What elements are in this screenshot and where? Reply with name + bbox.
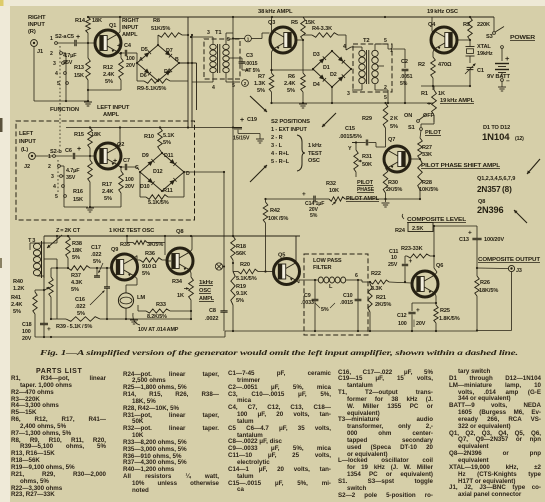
ground pilot (382, 202, 390, 204)
wire Q2 collector up (118, 144, 120, 147)
wire bottom rail (225, 330, 477, 332)
wire T1 bus left (187, 17, 189, 128)
svg-text:5 - R−L: 5 - R−L (271, 159, 290, 165)
svg-text:20V: 20V (126, 63, 136, 69)
svg-text:R29: R29 (362, 116, 372, 122)
svg-text:Y: Y (348, 146, 352, 152)
svg-text:5: 5 (57, 81, 60, 87)
svg-text:5.1K/5%: 5.1K/5% (236, 276, 257, 282)
svg-text:5%: 5% (163, 140, 171, 146)
svg-text:C3: C3 (246, 53, 253, 59)
wire T3 bottom lead (37, 275, 44, 277)
ground battery (498, 86, 506, 88)
svg-text:910 Ω: 910 Ω (142, 264, 157, 270)
svg-text:+: + (113, 158, 117, 165)
svg-text:D5: D5 (141, 47, 148, 53)
svg-text:3: 3 (51, 174, 54, 180)
svg-text:100: 100 (126, 56, 135, 62)
svg-text:D3: D3 (313, 52, 320, 58)
svg-text:AMPL: AMPL (199, 296, 215, 302)
svg-text:C13: C13 (459, 237, 469, 243)
svg-text:S2-b: S2-b (50, 149, 62, 155)
svg-text:Q1: Q1 (109, 23, 116, 29)
svg-text:R5: R5 (291, 20, 298, 26)
resistor R34 pot (190, 270, 191, 273)
svg-text:25V: 25V (388, 262, 398, 268)
svg-text:3: 3 (347, 91, 350, 97)
svg-text:D4: D4 (313, 82, 320, 88)
svg-text:LOW PASS: LOW PASS (313, 258, 342, 264)
svg-text:PILOT: PILOT (425, 130, 442, 136)
svg-text:RIGHT: RIGHT (122, 18, 140, 24)
wire pilot bottom bus (266, 198, 314, 200)
svg-text:+: + (240, 117, 244, 124)
svg-text:2.4K: 2.4K (103, 72, 114, 78)
svg-text:1K: 1K (177, 293, 184, 299)
arrow annotation 2 (322, 113, 336, 127)
svg-text:D6: D6 (140, 73, 147, 79)
svg-text:ON: ON (404, 113, 412, 119)
svg-text:R26: R26 (480, 280, 490, 286)
svg-text:2: 2 (50, 51, 53, 57)
svg-text:5%: 5% (13, 309, 21, 315)
svg-text:5%: 5% (236, 298, 244, 304)
svg-text:+: + (77, 146, 81, 153)
svg-text:2: 2 (48, 164, 51, 170)
svg-text:R28: R28 (422, 180, 432, 186)
inductor L (318, 277, 323, 283)
svg-text:35V: 35V (63, 60, 73, 66)
capacitor C1 trimmer (467, 66, 474, 68)
svg-text:R21: R21 (376, 295, 386, 301)
svg-text:4: 4 (212, 85, 215, 91)
svg-text:R42: R42 (270, 208, 280, 214)
svg-text:R8: R8 (153, 18, 160, 24)
terminal circle 1 (245, 35, 252, 42)
svg-text:D1: D1 (323, 65, 330, 71)
wire Q1 collector to top rail (118, 32, 120, 34)
arrow annotation 5 (250, 165, 267, 182)
connector J1 (31, 40, 38, 47)
wire bridge2 bottom (331, 87, 333, 103)
svg-text:1: 1 (247, 37, 250, 42)
wire Q3 emitter down (272, 49, 274, 52)
svg-text:C16: C16 (75, 297, 85, 303)
svg-text:D11: D11 (164, 153, 173, 159)
wire bus y86 (421, 85, 470, 87)
wire Q6 base (411, 283, 414, 285)
wire bridge B to bus (179, 62, 197, 64)
svg-text:10K /5%: 10K /5% (268, 216, 288, 222)
wire T3 top lead (37, 242, 57, 244)
svg-text:5.1K: 5.1K (163, 133, 174, 139)
svg-text:J2: J2 (24, 164, 30, 170)
svg-text:2 K: 2 K (390, 116, 398, 122)
svg-text:.0022: .0022 (205, 316, 218, 322)
svg-text:PILOT AMPL: PILOT AMPL (346, 196, 380, 202)
svg-text:4 - R+L: 4 - R+L (271, 151, 290, 157)
diode bridge D5 D6 D7 D8 (137, 45, 158, 63)
wire composite rail (433, 225, 477, 227)
ground C19 (256, 138, 264, 140)
svg-text:FUNCTION: FUNCTION (50, 107, 79, 113)
svg-text:R38: R38 (72, 241, 82, 247)
svg-text:5: 5 (55, 194, 58, 200)
wire Q4 base to R3 (457, 39, 470, 41)
svg-text:AMPL: AMPL (103, 112, 120, 118)
svg-text:R40: R40 (13, 279, 23, 285)
svg-text:33K: 33K (422, 152, 432, 158)
svg-text:2.5K: 2.5K (412, 226, 423, 232)
svg-text:.0051: .0051 (400, 74, 413, 80)
svg-text:C9: C9 (304, 293, 311, 299)
svg-text:2: 2 (384, 85, 387, 91)
wire bus x192 (191, 35, 193, 128)
svg-text:LEFT: LEFT (19, 131, 34, 137)
svg-text:5%: 5% (93, 259, 101, 265)
resistor R9 (144, 79, 170, 84)
svg-text:5%: 5% (390, 124, 398, 130)
svg-text:5: 5 (384, 95, 387, 101)
wire Q5 emitter to filter (296, 281, 299, 284)
svg-text:OSC: OSC (308, 158, 320, 164)
svg-text:S2 POSITIONS: S2 POSITIONS (271, 119, 310, 125)
diode bridge D1 D2 D3 D4 (313, 51, 332, 69)
svg-text:2.4K: 2.4K (11, 302, 22, 308)
svg-text:5%: 5% (77, 311, 85, 317)
svg-text:3: 3 (207, 30, 210, 36)
svg-text:R2: R2 (418, 62, 425, 68)
wire node to bridge2 (272, 69, 315, 71)
svg-text:R33: R33 (156, 302, 166, 308)
svg-text:.0015: .0015 (245, 61, 258, 67)
svg-text:R41: R41 (11, 295, 21, 301)
svg-text:5%: 5% (72, 255, 80, 261)
svg-text:COMPOSITE OUTPUT: COMPOSITE OUTPUT (478, 257, 541, 263)
svg-text:R27: R27 (422, 145, 432, 151)
svg-text:R18: R18 (236, 244, 246, 250)
wire Q6 collector (435, 272, 437, 275)
svg-text:R23-33K: R23-33K (401, 246, 423, 252)
svg-text:R16: R16 (73, 189, 83, 195)
svg-text:15K: 15K (74, 73, 84, 79)
wire Q2 emitter to C7 (118, 165, 121, 168)
svg-text:3: 3 (53, 61, 56, 67)
wire Q1 emitter to C4 (118, 52, 121, 55)
svg-text:2N357 (8): 2N357 (8) (477, 185, 512, 194)
svg-text:D8: D8 (164, 69, 171, 75)
svg-text:C1: C1 (477, 68, 484, 74)
wire Q5 collector up (295, 236, 297, 263)
svg-text:1 kHz: 1 kHz (308, 143, 322, 149)
wire long mid bus (66, 127, 238, 129)
svg-text:C: C (135, 165, 139, 171)
svg-text:C2: C2 (401, 59, 408, 65)
svg-text:100/20V: 100/20V (484, 237, 504, 243)
svg-text:2.4K: 2.4K (102, 189, 113, 195)
svg-text:LEFT INPUT: LEFT INPUT (97, 105, 130, 111)
svg-text:1 - EXT INPUT: 1 - EXT INPUT (271, 127, 307, 133)
svg-text:C19: C19 (247, 117, 257, 123)
wire J1 down to ground bus (33, 47, 35, 102)
svg-text:B: B (175, 57, 179, 63)
svg-text:T2: T2 (363, 38, 370, 44)
svg-text:1.2K: 1.2K (13, 286, 24, 292)
svg-text:2K/5%: 2K/5% (386, 187, 402, 193)
wire bottom-left rail (35, 336, 225, 338)
svg-text:19kHz: 19kHz (477, 51, 493, 57)
svg-text:19 kHz OSC: 19 kHz OSC (427, 9, 459, 15)
svg-text:R39 - 5.1K / 5%: R39 - 5.1K / 5% (56, 324, 92, 330)
svg-text:OSC: OSC (199, 288, 211, 294)
wire Q8 collector (190, 250, 192, 253)
svg-text:C4: C4 (124, 43, 132, 49)
svg-text:4: 4 (55, 71, 58, 77)
svg-text:D1 TO D12: D1 TO D12 (483, 125, 510, 131)
wire osc top rail (44, 235, 300, 237)
svg-text:1N104: 1N104 (482, 132, 510, 143)
svg-text:9.1K: 9.1K (236, 291, 247, 297)
svg-text:POWER: POWER (510, 35, 536, 41)
wire Q3 collector to rail (272, 32, 274, 35)
resistor R39 (66, 317, 100, 322)
svg-text:RIGHT: RIGHT (28, 15, 46, 21)
svg-text:1.8K/5%: 1.8K/5% (439, 316, 460, 322)
svg-text:20V: 20V (22, 336, 32, 342)
svg-text:10K/5%: 10K/5% (419, 187, 438, 193)
svg-text:1.3K: 1.3K (254, 81, 265, 87)
wire T2 sec to C2 (388, 48, 405, 50)
svg-text:D7: D7 (166, 48, 173, 54)
diode bridge D9 D10 D11 D12 (140, 153, 162, 172)
svg-text:100: 100 (22, 329, 31, 335)
svg-text:R4-3.3K: R4-3.3K (312, 26, 332, 32)
wire S2 gang dashed (59, 46, 61, 148)
svg-text:3.3K: 3.3K (371, 286, 382, 292)
terminal circle 2 (242, 80, 249, 87)
svg-text:2: 2 (244, 81, 247, 86)
svg-text:Z = 2K CT: Z = 2K CT (56, 228, 81, 234)
svg-text:INPUT: INPUT (19, 139, 36, 145)
svg-text:Q7: Q7 (388, 137, 395, 143)
svg-text:1K: 1K (438, 91, 445, 97)
svg-text:R10: R10 (144, 134, 154, 140)
resistor R37 (68, 266, 90, 271)
node X circled (215, 263, 222, 270)
svg-text:2.4K: 2.4K (284, 81, 295, 87)
svg-text:R24: R24 (395, 228, 406, 234)
svg-text:18K: 18K (91, 132, 101, 138)
svg-text:15/15V: 15/15V (233, 136, 250, 142)
svg-text:5%: 5% (142, 271, 150, 277)
page edge mark left 2 (0, 258, 2, 268)
svg-text:5%: 5% (104, 196, 112, 202)
svg-text:R9-5.1K/5%: R9-5.1K/5% (137, 86, 166, 92)
wire bus x233 vertical (232, 17, 234, 44)
svg-text:50K: 50K (362, 162, 372, 168)
wire to Q9 base (57, 267, 68, 269)
svg-text:5%: 5% (257, 88, 265, 94)
svg-text:A: A (139, 57, 143, 63)
svg-text:5: 5 (227, 37, 230, 43)
svg-text:100: 100 (398, 321, 407, 327)
svg-text:5%: 5% (400, 81, 408, 87)
svg-text:5: 5 (384, 38, 387, 44)
svg-text:S2-a: S2-a (55, 34, 67, 40)
svg-text:5: 5 (232, 83, 235, 89)
svg-text:Fig. 1—A simplified version of: Fig. 1—A simplified version of the gener… (40, 348, 518, 357)
svg-text:5%: 5% (310, 213, 318, 219)
ground lamp (126, 318, 134, 320)
svg-text:.0015: .0015 (340, 300, 353, 306)
svg-text:18K: 18K (92, 18, 102, 24)
ground under Q2 (86, 207, 94, 209)
svg-text:18K/5%: 18K/5% (479, 288, 498, 294)
svg-text:+: + (47, 326, 51, 333)
svg-text:J1: J1 (37, 49, 43, 55)
svg-text:Q1,2,3,4,5,6,7,9: Q1,2,3,4,5,6,7,9 (477, 176, 515, 182)
svg-text:3 - L: 3 - L (271, 143, 283, 149)
svg-text:+: + (468, 230, 472, 237)
svg-text:PILOT PHASE SHIFT AMPL: PILOT PHASE SHIFT AMPL (421, 163, 501, 169)
svg-text:C5: C5 (67, 34, 74, 40)
svg-text:R17: R17 (102, 182, 112, 188)
svg-text:4.7μF: 4.7μF (63, 53, 77, 59)
svg-text:.022: .022 (75, 304, 85, 310)
wire lower bus 38kHz (272, 102, 435, 104)
svg-text:1: 1 (50, 36, 53, 42)
arrow annotation 3 (527, 159, 540, 174)
dashed box left input amplifier (16, 121, 195, 220)
svg-text:35V: 35V (66, 175, 76, 181)
svg-text:470Ω: 470Ω (438, 62, 452, 68)
svg-text:(12): (12) (515, 136, 524, 142)
page edge mark left 1 (0, 118, 3, 132)
wire Q4 collector to rail (432, 31, 434, 34)
svg-text:PILOT: PILOT (357, 180, 374, 186)
svg-text:18K: 18K (72, 248, 82, 254)
svg-text:T1: T1 (215, 30, 222, 36)
svg-text:Q6: Q6 (436, 263, 443, 269)
svg-text:Q9: Q9 (111, 247, 118, 253)
svg-text:D10: D10 (140, 184, 150, 190)
wire top supply rail (88, 16, 494, 18)
svg-text:D2: D2 (330, 72, 337, 78)
svg-text:+: + (505, 54, 510, 63)
resistor R26 (475, 276, 479, 296)
svg-text:10K: 10K (329, 188, 339, 194)
svg-text:5%: 5% (287, 88, 295, 94)
svg-text:TEST: TEST (308, 151, 323, 157)
svg-text:2K/5%: 2K/5% (375, 302, 391, 308)
svg-text:56K: 56K (236, 251, 246, 257)
capacitor C16 (104, 286, 110, 288)
svg-text:D12: D12 (153, 169, 163, 175)
svg-text:15K: 15K (73, 197, 83, 203)
svg-text:LM: LM (137, 295, 145, 301)
capacitor C12 (412, 302, 436, 304)
page edge mark top corner (0, 0, 4, 6)
svg-text:R12: R12 (103, 65, 113, 71)
lamp LM (118, 293, 133, 308)
svg-text:S1: S1 (408, 125, 415, 131)
svg-text:C18: C18 (22, 322, 32, 328)
svg-text:−: − (506, 78, 510, 85)
resistor R38 (66, 236, 71, 258)
dashed box low pass filter (304, 254, 368, 335)
svg-text:C17: C17 (91, 245, 101, 251)
svg-text:R34: R34 (172, 279, 183, 285)
ground FUNCTION (84, 101, 92, 103)
svg-text:R31: R31 (362, 154, 372, 160)
svg-text:R36: R36 (145, 251, 155, 257)
svg-text:20V: 20V (125, 184, 135, 190)
svg-text:INPUT: INPUT (122, 25, 139, 31)
svg-text:(R): (R) (28, 29, 36, 35)
wire Q6 emitter (435, 293, 436, 296)
svg-text:(L): (L) (21, 147, 28, 153)
svg-text:J3: J3 (516, 268, 522, 274)
wire Q7 collector (386, 150, 388, 153)
svg-text:1kHz: 1kHz (199, 280, 213, 286)
wire Q9 emitter to lamp (134, 276, 137, 279)
svg-text:2N396: 2N396 (477, 205, 503, 215)
svg-text:2 - R: 2 - R (271, 135, 283, 141)
svg-text:D9: D9 (142, 153, 149, 159)
svg-text:+: + (416, 307, 420, 314)
svg-text:.0015/5%: .0015/5% (339, 134, 362, 140)
svg-text:R7: R7 (258, 74, 265, 80)
wire bus x196 (196, 63, 198, 110)
svg-text:R25: R25 (440, 308, 450, 314)
svg-text:PHASE: PHASE (357, 187, 374, 193)
svg-text:R30: R30 (388, 180, 398, 186)
arrow to T3 (47, 235, 62, 248)
svg-text:5%: 5% (105, 79, 113, 85)
page edge mark left 3 (0, 428, 2, 440)
svg-text:100: 100 (125, 177, 134, 183)
svg-text:38 kHz AMPL: 38 kHz AMPL (258, 9, 293, 15)
svg-text:XTAL: XTAL (477, 44, 491, 50)
svg-text:R19: R19 (236, 284, 246, 290)
wire R39 rail (57, 318, 66, 320)
arrow annotation 4 (514, 210, 527, 223)
wire Q4 emitter to R2 (433, 49, 434, 52)
svg-text:C8: C8 (209, 308, 216, 314)
svg-text:S3: S3 (486, 34, 493, 40)
svg-text:5.1K/5%: 5.1K/5% (148, 200, 169, 206)
svg-text:.022: .022 (91, 252, 101, 258)
svg-text:6: 6 (355, 273, 358, 279)
svg-text:20V: 20V (416, 321, 426, 327)
svg-text:R15: R15 (74, 132, 84, 138)
svg-text:R22: R22 (371, 271, 381, 277)
svg-text:1: 1 (48, 154, 51, 160)
svg-text:10V AT .014 AMP: 10V AT .014 AMP (138, 327, 179, 333)
svg-text:R37: R37 (71, 273, 81, 279)
wire S2b gang dashed (57, 160, 59, 194)
svg-text:+: + (117, 43, 121, 50)
svg-text:4.7μF: 4.7μF (66, 168, 80, 174)
svg-text:C10: C10 (343, 293, 353, 299)
svg-text:L: L (329, 284, 333, 290)
svg-text:R14: R14 (75, 18, 86, 24)
svg-text:220K: 220K (477, 22, 490, 28)
wire bridge3 D output (184, 171, 224, 173)
wire Q8 base (167, 260, 171, 262)
svg-text:5%: 5% (321, 307, 329, 313)
svg-text:R11: R11 (163, 188, 173, 194)
